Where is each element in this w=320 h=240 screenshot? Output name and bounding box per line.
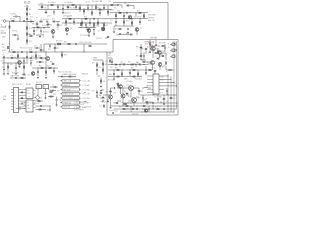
resistor R15 [37, 27, 39, 28]
frame right edge upper [167, 3, 169, 40]
wire [142, 99, 144, 102]
resistor R8 [27, 8, 28, 10]
svg-text:RC4: RC4 [38, 56, 41, 58]
svg-text:Q17 2N5551: Q17 2N5551 [80, 35, 89, 37]
wire stub [126, 108, 129, 110]
svg-text:R79: R79 [97, 8, 100, 10]
capacitor C54 [117, 4, 120, 6]
svg-text:R47: R47 [39, 65, 42, 67]
svg-text:R56 2k2: R56 2k2 [34, 103, 40, 105]
svg-text:C51: C51 [2, 54, 5, 56]
junction [57, 4, 60, 7]
resistor R13 [40, 21, 42, 22]
junction [115, 17, 118, 20]
U pin stub right 5 [33, 103, 36, 105]
option box row 6 [62, 101, 80, 104]
resistor RC2 [54, 47, 56, 50]
svg-text:PIN HDR: PIN HDR [82, 73, 88, 75]
svg-text:C78: C78 [154, 97, 157, 99]
junction [117, 87, 120, 90]
wire stub [128, 100, 131, 102]
svg-text:OUT: OUT [161, 79, 164, 81]
resistor R54 [50, 92, 52, 93]
transistor Q9 [36, 96, 40, 100]
wire [120, 88, 122, 94]
pin mark left row 2 [61, 84, 62, 86]
wire [23, 62, 25, 63]
svg-text:Q1: Q1 [57, 29, 59, 31]
wire [23, 70, 25, 74]
wire [80, 22, 82, 23]
U pin stub right 2 [33, 93, 36, 95]
resistor RA1 [163, 98, 165, 101]
wire [93, 23, 95, 28]
transistor Q6 [18, 61, 22, 65]
svg-text:MIC PRE: MIC PRE [24, 1, 31, 3]
svg-text:R57: R57 [47, 109, 50, 111]
junction [23, 57, 26, 60]
resistor RC6 [57, 24, 59, 27]
junction [137, 69, 140, 72]
svg-text:U1: U1 [27, 90, 29, 92]
pin mark right row 5 [80, 97, 82, 99]
svg-text:C53 68p: C53 68p [10, 14, 16, 16]
svg-text:R87 22k: R87 22k [96, 1, 102, 3]
junction [175, 84, 178, 87]
resistor R75 [146, 102, 148, 103]
capacitor C43 [163, 108, 166, 110]
junction [7, 57, 10, 60]
junction [152, 108, 155, 111]
wire [45, 61, 47, 68]
wire [159, 55, 162, 57]
junction [127, 63, 130, 66]
relay K2 [43, 85, 49, 89]
svg-text:22k: 22k [2, 47, 5, 49]
wire stub bus [174, 43, 177, 45]
wire [159, 54, 161, 58]
capacitor C11 [99, 12, 101, 15]
junction [123, 17, 126, 20]
input jack J1 [3, 20, 5, 22]
junction [85, 26, 88, 29]
junction [7, 62, 10, 65]
junction [93, 22, 96, 25]
wire [157, 100, 159, 103]
wire [50, 90, 53, 92]
resistor RC5 [39, 61, 41, 64]
wire [96, 90, 98, 95]
capacitor C69 [36, 47, 39, 49]
CN2 pin line 5 [147, 88, 153, 90]
svg-text:TP1 0V: TP1 0V [100, 99, 105, 101]
svg-text:SHLD: SHLD [2, 36, 6, 38]
wire [133, 87, 139, 89]
resistor R51 [69, 76, 71, 77]
wire [36, 105, 51, 107]
frame right edge lower [177, 40, 179, 116]
capacitor C40 [143, 55, 145, 58]
capacitor C12 [73, 21, 75, 24]
wire [95, 10, 97, 11]
ground [17, 38, 19, 40]
junction [146, 102, 149, 105]
svg-text:R48: R48 [47, 65, 50, 67]
CN1 pin stub left 6 [11, 103, 14, 105]
svg-text:Q5: Q5 [140, 28, 142, 30]
wire [148, 106, 150, 108]
interconnect wire 1 [19, 89, 27, 91]
wire input [6, 20, 34, 23]
junction [105, 17, 108, 20]
output section left step [112, 40, 114, 53]
resistor R3 [80, 7, 81, 9]
wire [143, 13, 145, 19]
wire [93, 31, 95, 34]
terminal T1 [172, 43, 175, 46]
svg-text:C58: C58 [105, 61, 108, 63]
wire [40, 44, 42, 49]
junction [145, 69, 148, 72]
svg-text:Q2: Q2 [70, 28, 72, 30]
wire [108, 57, 112, 59]
pin mark right row 4 [80, 93, 82, 95]
wire [159, 82, 174, 84]
svg-text:C12: C12 [64, 25, 67, 27]
capacitor C9 [39, 35, 41, 38]
wire stub [1, 32, 7, 34]
bus horizontal 3 [120, 111, 174, 113]
interconnect wire 4 [19, 97, 27, 99]
capacitor C28 [61, 75, 63, 78]
resistor R46 [24, 66, 25, 68]
wire [87, 5, 89, 7]
V+ sub rail [38, 9, 112, 11]
svg-text:J1: J1 [1, 19, 3, 21]
capacitor C29 [21, 103, 24, 105]
wire [16, 34, 19, 36]
resistor R29 [144, 15, 145, 17]
wire [37, 89, 39, 96]
svg-text:OFFSET: OFFSET [148, 17, 154, 19]
bus vertical 1 [167, 74, 169, 112]
wire [23, 63, 25, 70]
resistor R60 [117, 70, 119, 71]
capacitor C47 [75, 6, 77, 9]
junction [167, 105, 170, 108]
wire [101, 89, 104, 91]
wire [146, 61, 150, 63]
svg-text:R96: R96 [128, 61, 131, 63]
connector CN1 [14, 88, 19, 113]
resistor R95 [100, 92, 102, 95]
svg-text:J4 1-2 80Hz: J4 1-2 80Hz [82, 98, 90, 100]
pin mark left row 3 [61, 88, 62, 90]
wire [107, 99, 109, 101]
wire [123, 13, 125, 19]
ground [113, 78, 115, 80]
U pin stub right 1 [33, 90, 36, 92]
wire vr chain [140, 44, 142, 60]
wire bus out1 [108, 69, 152, 71]
junction [135, 11, 138, 14]
resistor R4 [96, 6, 97, 8]
wire [130, 5, 134, 7]
wire [40, 28, 42, 31]
connector CN2 [153, 74, 159, 94]
capacitor C49 [103, 28, 105, 31]
CN1 pin stub left 5 [11, 100, 14, 102]
svg-text:MUTE ON: MUTE ON [63, 107, 70, 109]
transistor Q5 [135, 28, 139, 32]
IC U1 [26, 88, 33, 99]
wire [79, 5, 81, 10]
wire [54, 44, 56, 47]
resistor RC1 [40, 49, 42, 52]
transistor Q15 [158, 51, 162, 55]
svg-text:C57: C57 [92, 90, 95, 92]
svg-text:R32: R32 [115, 28, 118, 30]
option box row 1 [62, 79, 80, 82]
wire [19, 17, 21, 22]
svg-text:R80 3k3: R80 3k3 [84, 22, 90, 24]
resistor R42 [18, 55, 19, 57]
wire [136, 32, 138, 36]
bus horizontal 4 [140, 94, 177, 96]
svg-text:RB2: RB2 [50, 24, 53, 26]
ground [45, 77, 47, 79]
transistor Q3 [101, 27, 105, 31]
resistor R16 [30, 36, 32, 37]
resistor R79 [99, 9, 101, 10]
resistor R97 [126, 92, 128, 95]
capacitor C34 [15, 77, 18, 79]
CN1 pin stub left 1 [11, 89, 14, 91]
wire [36, 22, 38, 24]
transistor Q11 [121, 94, 125, 98]
wire [139, 19, 141, 25]
resistor R61 [133, 70, 135, 71]
resistor R53 [21, 97, 23, 100]
diode D1 [124, 103, 126, 105]
frame top edge [113, 2, 168, 4]
junction [145, 69, 148, 72]
svg-text:C70: C70 [36, 30, 39, 32]
resistor R23 [82, 22, 83, 24]
capacitor C68 [30, 62, 32, 65]
resistor R17 [69, 18, 71, 19]
U pin stub right 3 [33, 96, 36, 98]
capacitor C76 [30, 21, 33, 23]
capacitor C74 [30, 57, 33, 59]
svg-text:U2: U2 [27, 102, 29, 104]
resistor R73 [143, 62, 145, 63]
resistor R18 [85, 18, 87, 19]
junction [33, 26, 36, 29]
resistor R70 [118, 83, 119, 85]
U pin stub right 6 [33, 107, 36, 109]
svg-text:R85a: R85a [50, 61, 54, 63]
wire [54, 49, 56, 52]
resistor R38 [30, 52, 32, 53]
wire [36, 109, 47, 111]
wire aux [10, 77, 26, 79]
wire [85, 23, 87, 24]
wire stub [84, 92, 86, 94]
svg-text:R88: R88 [124, 3, 127, 5]
svg-text:R98: R98 [141, 91, 144, 93]
resistor R22 [66, 21, 67, 23]
wire bus out0 [108, 64, 148, 66]
pin mark left row 1 [61, 80, 62, 82]
transistor Q4 [128, 16, 131, 19]
junction [131, 17, 134, 20]
junction [17, 51, 20, 54]
svg-text:Q4 R29 2k: Q4 R29 2k [134, 17, 141, 19]
output section top border [113, 39, 178, 41]
svg-text:C62: C62 [166, 101, 169, 103]
signal bus A [62, 18, 112, 20]
svg-text:R36b: R36b [2, 50, 6, 52]
resistor RA6 [143, 105, 145, 108]
V+ rail [38, 4, 118, 6]
ground [55, 104, 57, 106]
junction [53, 67, 56, 70]
wire [45, 10, 47, 13]
junction [89, 17, 92, 20]
wire [50, 86, 54, 88]
CN1 pin stub left 8 [11, 109, 14, 111]
svg-text:C39 330p: C39 330p [126, 81, 132, 83]
svg-text:R65: R65 [109, 74, 112, 76]
wire [43, 28, 45, 30]
table pin dot 7 [60, 105, 63, 108]
wire [118, 87, 129, 89]
resistor R1 [51, 5, 53, 6]
CN2 pin line 4 [147, 85, 153, 87]
resistor R94 [103, 69, 104, 71]
interconnect wire 2 [19, 91, 27, 93]
capacitor C30 [45, 92, 47, 95]
svg-text:R30: R30 [126, 20, 129, 22]
wire [88, 32, 90, 34]
ground [102, 100, 104, 102]
wire [49, 44, 51, 45]
wire [130, 91, 132, 98]
CN2 pin line 1 [147, 75, 153, 77]
wire [155, 40, 157, 44]
CN2 pin line 6 [147, 92, 153, 94]
CN1 pin stub left 4 [11, 97, 14, 99]
wire [33, 28, 35, 34]
wire [137, 70, 139, 77]
resistor RC4 [40, 57, 42, 60]
junction [69, 22, 72, 25]
capacitor C24 [26, 56, 28, 59]
wire [57, 26, 59, 28]
svg-text:R99: R99 [119, 107, 122, 109]
resistor R19 [84, 10, 85, 12]
svg-text:C46: C46 [44, 8, 47, 10]
svg-text:R86 330R: R86 330R [12, 72, 20, 74]
wire [130, 106, 132, 112]
svg-text:Q14: Q14 [147, 46, 150, 48]
svg-text:K1: K1 [37, 86, 39, 88]
wire [164, 44, 166, 47]
wire [52, 34, 54, 37]
svg-text:R18: R18 [84, 16, 87, 18]
resistor R59 [101, 80, 102, 82]
signal wire main [8, 51, 107, 53]
wire [163, 100, 165, 103]
svg-text:R89: R89 [141, 49, 144, 51]
resistor R77 [41, 6, 43, 9]
svg-text:RC2: RC2 [57, 48, 60, 50]
resistor R24 [98, 22, 99, 24]
junction [26, 51, 29, 54]
svg-text:R90: R90 [136, 46, 139, 48]
option box row 4 [62, 92, 80, 95]
resistor R83 [107, 36, 109, 39]
bus top right A [110, 12, 148, 14]
wire [149, 50, 151, 51]
junction [143, 11, 146, 14]
resistor R63 [122, 73, 123, 75]
interconnect wire 7 [19, 106, 27, 108]
svg-text:OUT: OUT [1, 61, 4, 63]
resistor R2 [72, 5, 74, 6]
junction [61, 51, 64, 54]
svg-text:C76: C76 [29, 19, 32, 21]
wire [157, 52, 159, 54]
capacitor C53 [15, 16, 18, 18]
resistor RA2 [102, 96, 104, 99]
capacitor C41 [164, 47, 166, 50]
svg-text:C25: C25 [18, 65, 21, 67]
resistor R26 [119, 12, 121, 13]
wire [118, 34, 129, 36]
svg-text:IC3B: IC3B [110, 10, 114, 12]
wire [100, 78, 102, 85]
wire [57, 22, 59, 25]
junction [81, 17, 84, 20]
wire [143, 52, 145, 55]
junction [45, 51, 48, 54]
svg-text:INPUT MUTE: INPUT MUTE [12, 84, 22, 86]
wire [47, 22, 49, 24]
svg-text:JUMPER SETTINGS: JUMPER SETTINGS [62, 74, 77, 76]
wire [143, 57, 145, 60]
option box row 5 [62, 97, 80, 100]
capacitor C64 [107, 100, 109, 103]
option box row 2 [62, 84, 80, 87]
svg-text:R44: R44 [64, 54, 67, 56]
capacitor C6 [26, 18, 28, 21]
ground [88, 35, 90, 37]
junction [69, 4, 72, 7]
svg-text:C71: C71 [160, 51, 163, 53]
wire stub bus2 [174, 49, 177, 51]
CN1 pin stub left 7 [11, 106, 14, 108]
resistor R7 [9, 26, 10, 28]
capacitor C48 [85, 24, 87, 27]
U pin stub right 4 [33, 100, 36, 102]
ground [52, 36, 54, 38]
junction [75, 4, 78, 7]
table pin dot 3 [60, 88, 63, 91]
wire [12, 34, 15, 36]
junction [103, 4, 106, 7]
